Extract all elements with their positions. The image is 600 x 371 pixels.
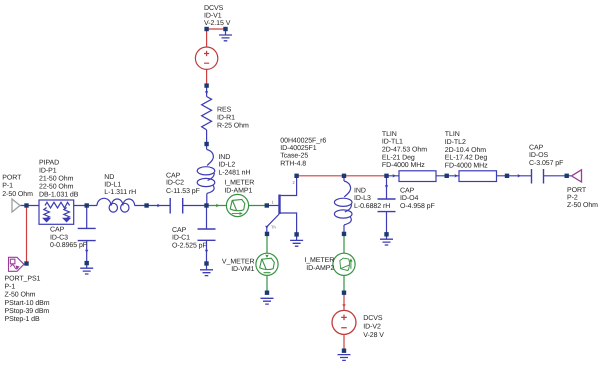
svg-text:ID-40025F1: ID-40025F1 <box>280 145 316 152</box>
svg-text:ID-P1: ID-P1 <box>39 168 57 175</box>
svg-text:CAP: CAP <box>400 188 415 195</box>
svg-text:PORT_PS1: PORT_PS1 <box>5 275 41 282</box>
svg-text:ID-V1: ID-V1 <box>204 12 222 19</box>
svg-text:ID-C1: ID-C1 <box>172 235 190 242</box>
svg-text:CAP: CAP <box>529 145 544 152</box>
svg-text:ID-TL1: ID-TL1 <box>382 139 403 146</box>
svg-text:O-2.525 pF: O-2.525 pF <box>172 242 207 249</box>
svg-text:ID-TL2: ID-TL2 <box>445 139 466 146</box>
svg-text:IND: IND <box>218 154 230 161</box>
svg-text:P-1: P-1 <box>5 283 16 290</box>
svg-text:CAP: CAP <box>172 227 187 234</box>
svg-text:ID-C3: ID-C3 <box>50 234 68 241</box>
svg-text:TLIN: TLIN <box>382 131 397 138</box>
svg-text:ID-L1: ID-L1 <box>104 182 121 189</box>
svg-text:R-25 Ohm: R-25 Ohm <box>217 122 249 130</box>
svg-text:ID-V2: ID-V2 <box>363 323 381 330</box>
svg-text:2D-10.4 Ohm: 2D-10.4 Ohm <box>445 146 486 154</box>
svg-text:EL-17.42 Deg: EL-17.42 Deg <box>445 155 488 162</box>
svg-text:Z-50 Ohm: Z-50 Ohm <box>5 291 36 299</box>
svg-text:P-1: P-1 <box>2 183 13 190</box>
svg-text:2D-47.53 Ohm: 2D-47.53 Ohm <box>382 146 427 154</box>
svg-text:PStep-1 dB: PStep-1 dB <box>5 315 41 323</box>
svg-text:DCVS: DCVS <box>363 315 383 322</box>
svg-text:1: 1 <box>272 200 275 205</box>
svg-text:DCVS: DCVS <box>204 5 224 12</box>
svg-text:I_METER: I_METER <box>224 179 254 186</box>
svg-text:PIPAD: PIPAD <box>39 159 59 166</box>
svg-text:ID-R1: ID-R1 <box>217 114 235 121</box>
svg-text:V-2.15 V: V-2.15 V <box>204 20 231 27</box>
svg-text:DB-1.031 dB: DB-1.031 dB <box>39 191 79 199</box>
svg-text:ID-AMP1: ID-AMP1 <box>224 187 252 194</box>
svg-text:EL-21 Deg: EL-21 Deg <box>382 154 415 161</box>
svg-text:ID-O4: ID-O4 <box>400 195 418 202</box>
svg-text:TLIN: TLIN <box>445 131 460 138</box>
svg-text:V_METER: V_METER <box>222 258 255 265</box>
svg-text:C-11.53 pF: C-11.53 pF <box>166 188 200 195</box>
svg-text:FD-4000 MHz: FD-4000 MHz <box>445 162 488 169</box>
svg-text:RTH-4.8: RTH-4.8 <box>280 160 306 167</box>
svg-text:Tcase-25: Tcase-25 <box>280 153 308 160</box>
svg-text:L-1.311 rH: L-1.311 rH <box>104 189 136 196</box>
svg-text:L-2481 nH: L-2481 nH <box>218 169 250 176</box>
svg-text:Z-50 Ohm: Z-50 Ohm <box>567 201 598 209</box>
svg-text:PORT: PORT <box>2 174 22 181</box>
svg-text:L-0.6882 rH: L-0.6882 rH <box>354 203 390 210</box>
svg-text:ID-C2: ID-C2 <box>166 180 184 187</box>
svg-text:21-50 Ohm: 21-50 Ohm <box>39 175 74 183</box>
svg-text:ID-VM1: ID-VM1 <box>231 266 254 273</box>
svg-text:ND: ND <box>104 174 114 181</box>
svg-text:ID-OS: ID-OS <box>529 152 548 159</box>
svg-text:CAP: CAP <box>50 227 65 234</box>
svg-text:FD-4000 MHz: FD-4000 MHz <box>382 162 425 169</box>
svg-text:O-4.958 pF: O-4.958 pF <box>400 203 435 210</box>
svg-text:ID-L2: ID-L2 <box>218 162 235 169</box>
svg-text:0-0.8965 pF: 0-0.8965 pF <box>50 242 87 249</box>
svg-text:ID-L3: ID-L3 <box>354 195 371 202</box>
svg-text:RES: RES <box>217 106 232 113</box>
svg-text:CAP: CAP <box>166 172 181 179</box>
svg-text:2-50 Ohm: 2-50 Ohm <box>2 190 33 198</box>
svg-text:I_METER: I_METER <box>304 257 334 264</box>
svg-text:00H40025F_r6: 00H40025F_r6 <box>280 138 326 145</box>
svg-text:Th: Th <box>271 225 276 230</box>
svg-text:V-28 V: V-28 V <box>363 332 384 339</box>
svg-text:P-2: P-2 <box>567 195 578 202</box>
svg-text:ID-AMP2: ID-AMP2 <box>306 265 334 272</box>
svg-text:PStop-39 dBm: PStop-39 dBm <box>5 307 50 315</box>
svg-text:22-50 Ohm: 22-50 Ohm <box>39 183 74 191</box>
svg-text:PStart-10 dBm: PStart-10 dBm <box>5 299 50 307</box>
svg-text:PORT: PORT <box>567 187 587 194</box>
svg-text:2: 2 <box>293 180 296 185</box>
svg-text:IND: IND <box>354 188 366 195</box>
svg-text:C-3.057 pF: C-3.057 pF <box>529 160 563 167</box>
